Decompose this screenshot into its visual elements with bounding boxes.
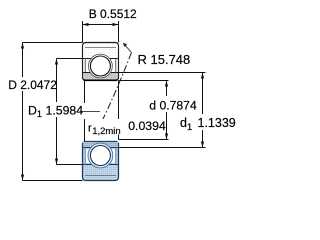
svg-text:B 0.5512: B 0.5512 xyxy=(89,7,137,21)
svg-text:0.0394: 0.0394 xyxy=(128,119,166,133)
svg-text:1,2min: 1,2min xyxy=(92,126,121,137)
svg-text:R 15.748: R 15.748 xyxy=(138,52,191,67)
svg-text:d 0.7874: d 0.7874 xyxy=(149,99,197,113)
svg-text:D 2.0472: D 2.0472 xyxy=(8,78,57,92)
svg-text:D11.5984: D11.5984 xyxy=(28,104,83,120)
